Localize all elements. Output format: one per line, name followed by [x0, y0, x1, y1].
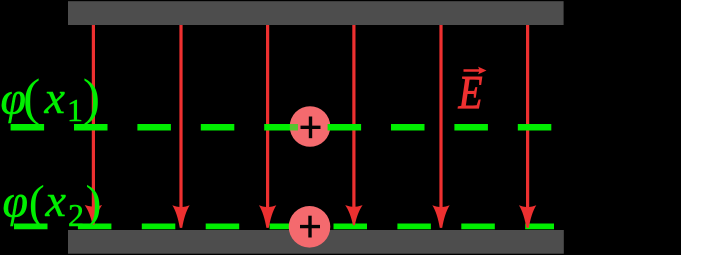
- svg-text:): ): [86, 176, 102, 229]
- svg-text:2: 2: [68, 197, 84, 233]
- svg-text:x: x: [45, 175, 67, 226]
- svg-text:1: 1: [67, 92, 83, 128]
- svg-text:x: x: [44, 72, 66, 123]
- svg-text:E: E: [458, 67, 483, 119]
- svg-text:): ): [83, 70, 100, 127]
- svg-text:φ: φ: [3, 176, 28, 227]
- svg-text:(: (: [23, 70, 40, 127]
- svg-text:(: (: [29, 176, 45, 229]
